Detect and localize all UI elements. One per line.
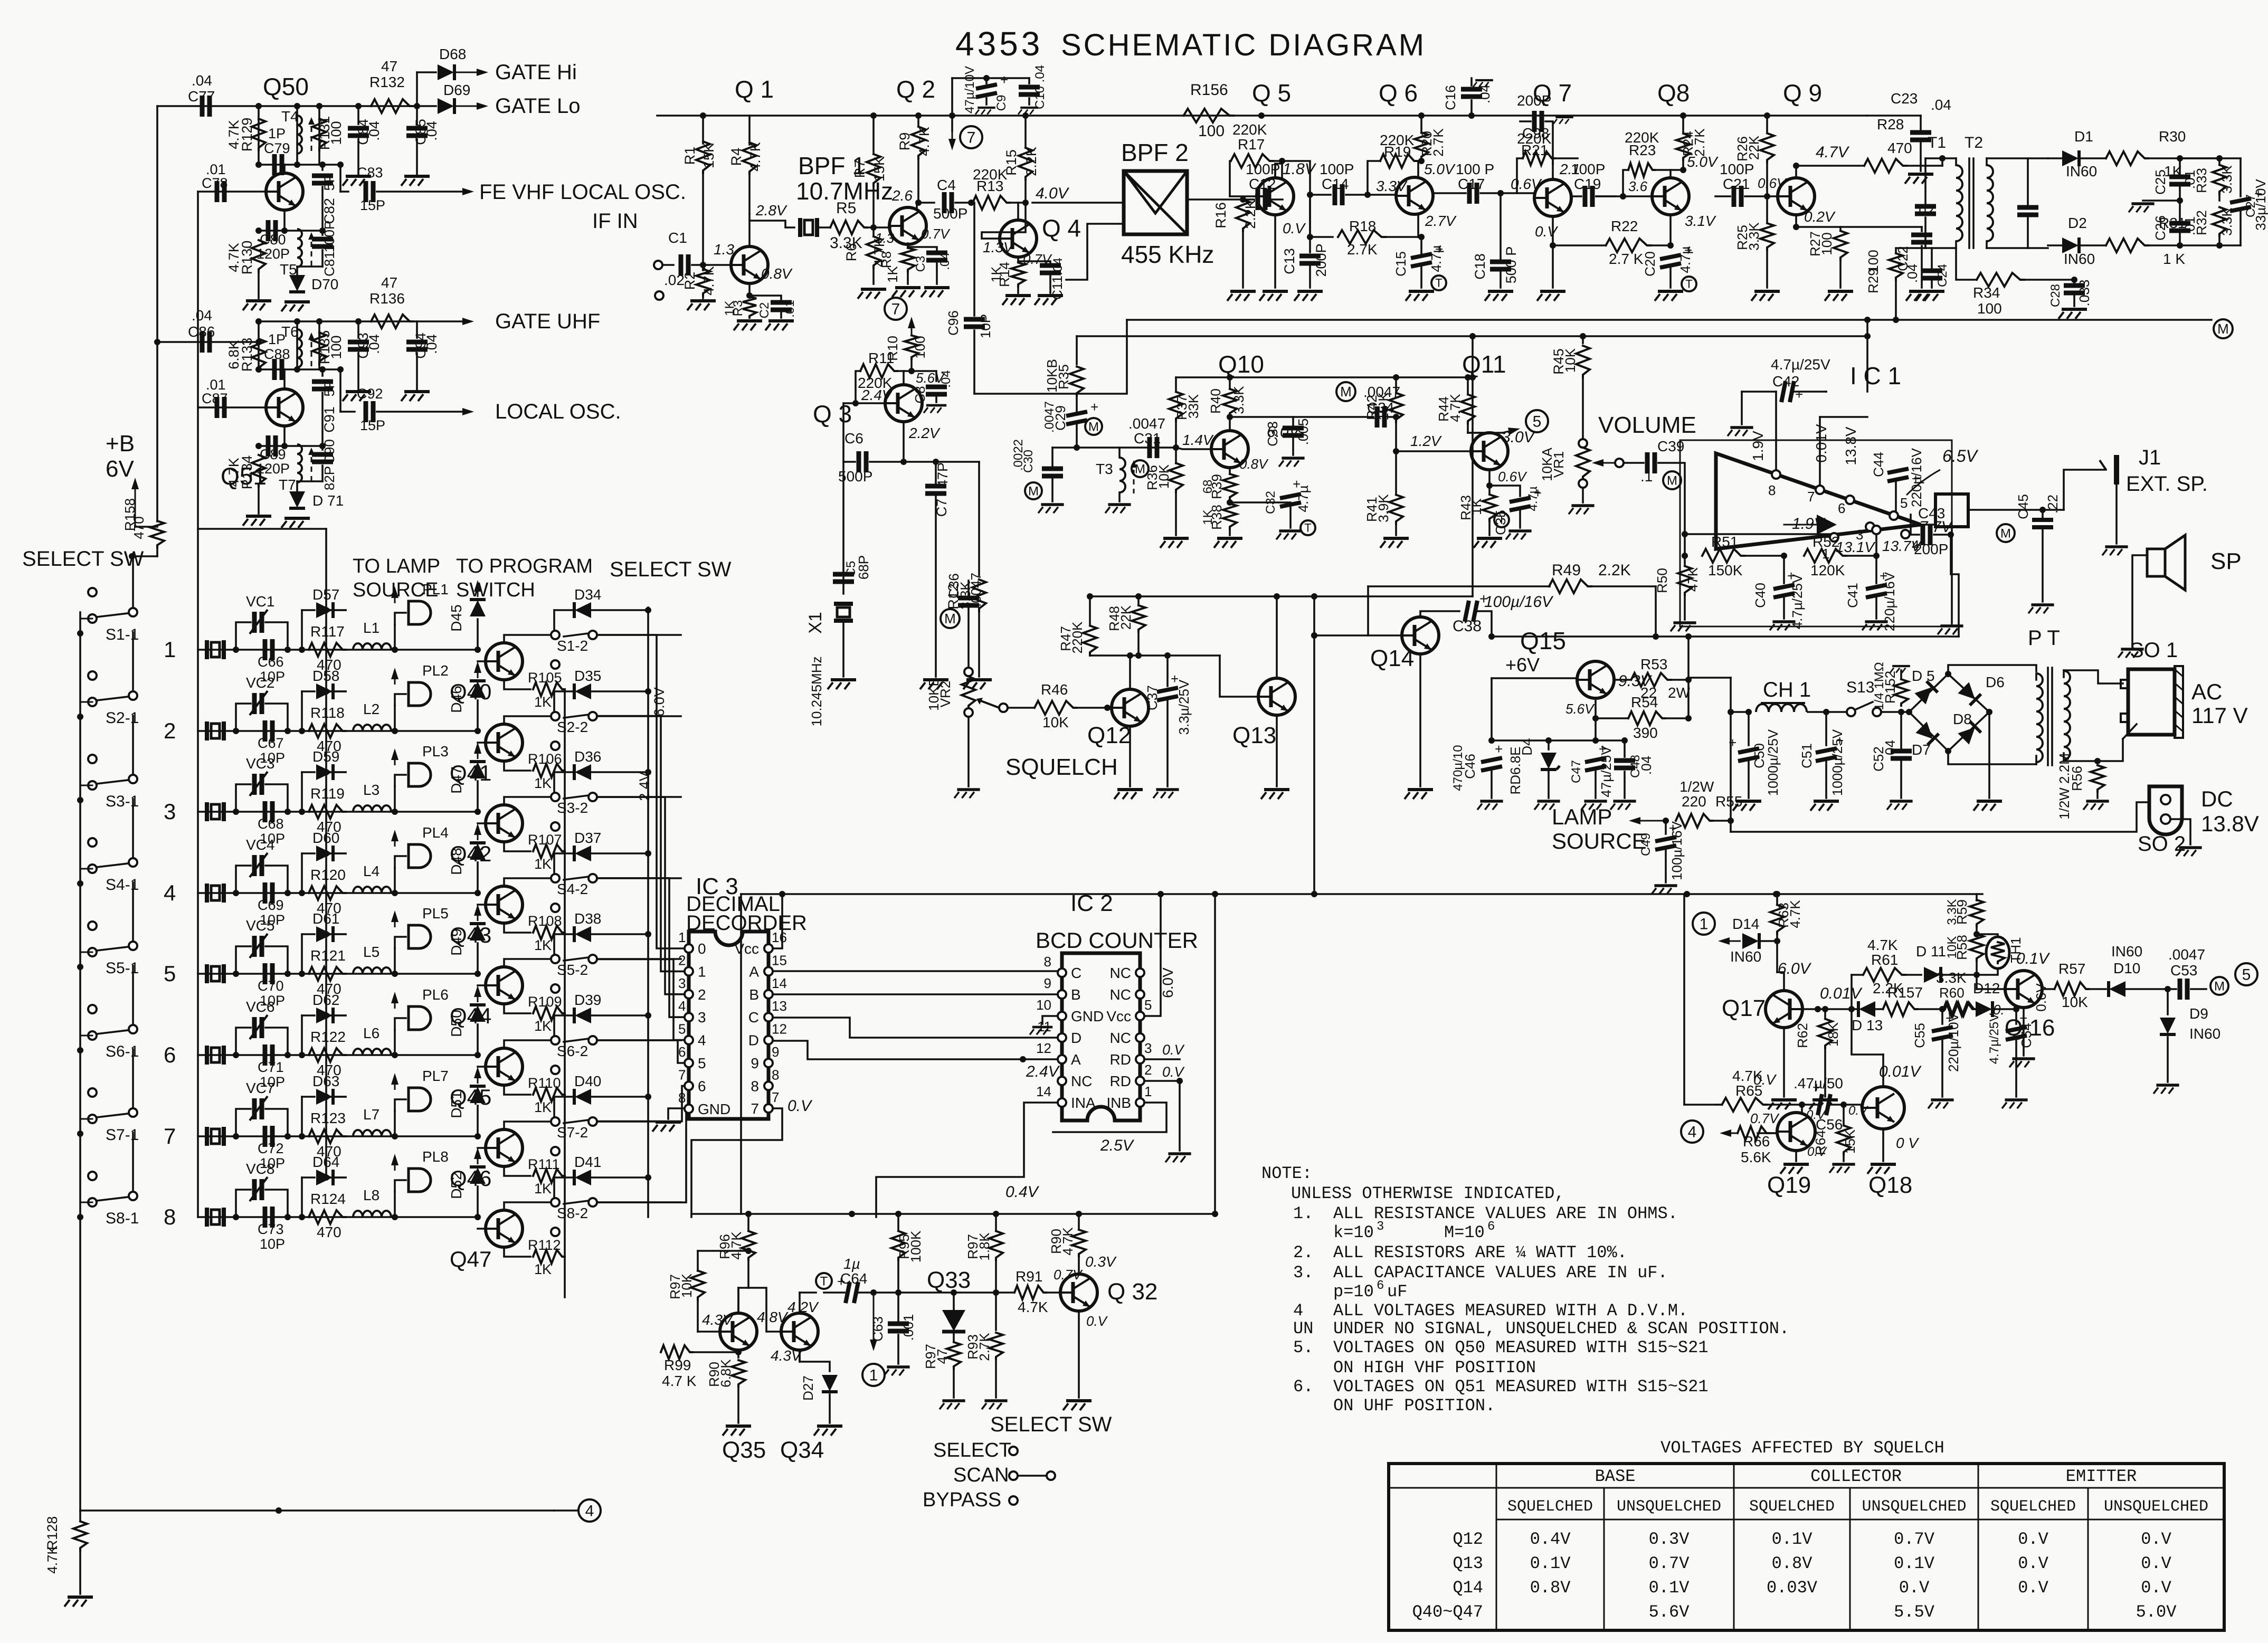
svg-text:C45: C45 xyxy=(2015,494,2031,519)
svg-text:0.2V: 0.2V xyxy=(1804,208,1836,225)
svg-text:1K: 1K xyxy=(534,1261,552,1277)
svg-text:100P: 100P xyxy=(1720,161,1754,177)
transistor Q14 xyxy=(1402,617,1439,654)
svg-text:LAMP: LAMP xyxy=(1552,804,1612,829)
svg-text:RD6.8E: RD6.8E xyxy=(1507,746,1523,794)
svg-text:IN60: IN60 xyxy=(2064,251,2095,267)
diode D70 xyxy=(296,267,298,276)
svg-text:4.7K: 4.7K xyxy=(1018,1299,1048,1315)
resistor R124 xyxy=(309,1210,346,1224)
svg-text:47P: 47P xyxy=(935,462,951,488)
svg-text:0.3V: 0.3V xyxy=(1649,1530,1690,1549)
inductor T3 xyxy=(1119,458,1125,492)
svg-text:120K: 120K xyxy=(1810,562,1845,578)
svg-text:S8-1: S8-1 xyxy=(106,1210,139,1227)
channel 5 row wire xyxy=(198,973,478,975)
svg-text:3.6: 3.6 xyxy=(1628,178,1648,194)
resistor R38 1K xyxy=(1227,499,1233,506)
capacitor C56 xyxy=(1812,1079,1830,1115)
svg-text:R156: R156 xyxy=(1190,81,1228,99)
svg-text:1: 1 xyxy=(164,637,176,662)
svg-text:Q13: Q13 xyxy=(1232,723,1276,748)
transistor Q17 xyxy=(1766,991,1802,1028)
gate uhf arrow xyxy=(417,320,464,322)
IC3 pin 6 5 xyxy=(685,1059,693,1067)
resistor R41 3.9K xyxy=(1395,451,1397,493)
wire to Q7 xyxy=(1501,192,1534,194)
diode D11 xyxy=(1924,967,1941,983)
resistor R56 xyxy=(2091,765,2104,792)
svg-text:T7: T7 xyxy=(279,477,296,493)
svg-text:R32: R32 xyxy=(2194,210,2209,235)
svg-text:2: 2 xyxy=(1144,1062,1152,1078)
resistor R29 100 xyxy=(1896,248,1925,252)
svg-text:S13: S13 xyxy=(1846,679,1874,696)
svg-text:C32: C32 xyxy=(1264,491,1278,514)
svg-text:7: 7 xyxy=(891,301,900,318)
svg-text:D9: D9 xyxy=(2189,1005,2208,1022)
resistor R3 xyxy=(748,283,751,296)
svg-text:8: 8 xyxy=(751,1078,759,1094)
svg-text:C10 .04: C10 .04 xyxy=(1033,65,1047,109)
svg-text:.001: .001 xyxy=(900,1314,916,1341)
transistor Q2 xyxy=(889,207,926,244)
crystal channel 2 xyxy=(207,721,224,740)
capacitor C14 xyxy=(1310,194,1331,196)
diode D40 xyxy=(554,1096,573,1098)
svg-text:10K: 10K xyxy=(1562,348,1578,373)
capacitor C77 xyxy=(202,96,210,117)
svg-text:SQUELCHED: SQUELCHED xyxy=(1990,1498,2076,1516)
wire R53 node xyxy=(1687,678,1690,718)
capacitor C40 xyxy=(1783,556,1785,583)
transistor Q40 xyxy=(486,643,523,680)
svg-text:2.7K: 2.7K xyxy=(976,1333,992,1361)
svg-text:0.V: 0.V xyxy=(1535,223,1558,240)
diode D69 xyxy=(438,98,454,114)
svg-text:D6: D6 xyxy=(1986,674,2005,690)
transistor Q7 xyxy=(1534,179,1571,216)
svg-text:C91: C91 xyxy=(321,406,337,433)
svg-text:D49: D49 xyxy=(448,928,464,955)
wire INA 0.4V xyxy=(876,1103,1058,1217)
svg-text:Q40~Q47: Q40~Q47 xyxy=(1412,1602,1483,1622)
svg-text:1: 1 xyxy=(1144,1084,1152,1099)
svg-text:1.4V: 1.4V xyxy=(1182,432,1214,448)
zener D4 xyxy=(1548,740,1550,749)
svg-text:5P: 5P xyxy=(321,379,337,396)
svg-text:47K: 47K xyxy=(1685,567,1701,592)
transistor Q8 xyxy=(1652,178,1689,215)
wire Q4 base xyxy=(982,203,1026,239)
svg-text:A: A xyxy=(1071,1051,1081,1068)
diode D8 xyxy=(1958,721,1981,745)
capacitor C82 5P xyxy=(321,165,324,170)
svg-text:4.7K: 4.7K xyxy=(1447,394,1463,422)
Q12 emitter xyxy=(1129,726,1131,786)
svg-text:+: + xyxy=(1090,399,1098,415)
capacitor C8 xyxy=(912,371,936,381)
resistor R33 xyxy=(2218,158,2220,164)
svg-text:220: 220 xyxy=(1682,793,1706,810)
svg-text:S3-1: S3-1 xyxy=(106,793,139,810)
IC2 pin 10 GND xyxy=(1058,1012,1066,1020)
svg-text:0.7V: 0.7V xyxy=(1649,1554,1690,1573)
svg-text:VC2: VC2 xyxy=(246,675,274,691)
svg-text:1K: 1K xyxy=(885,265,900,282)
svg-text:R16: R16 xyxy=(1213,202,1229,229)
svg-text:R91: R91 xyxy=(1016,1268,1042,1285)
svg-text:1K: 1K xyxy=(534,1018,552,1034)
wire SO2 to rail xyxy=(1731,802,2149,832)
svg-text:C18: C18 xyxy=(1472,253,1488,280)
svg-text:1µ: 1µ xyxy=(843,1256,860,1272)
resistor R121 xyxy=(309,967,346,981)
svg-text:R119: R119 xyxy=(310,785,345,802)
wire Q8 collector xyxy=(1669,170,1672,178)
svg-text:1 K: 1 K xyxy=(2163,251,2185,267)
svg-text:0.V: 0.V xyxy=(2141,1578,2171,1598)
svg-text:C98: C98 xyxy=(1522,125,1549,141)
T1 tank cap xyxy=(1924,158,1927,203)
svg-text:0.8V: 0.8V xyxy=(1530,1578,1571,1598)
wire RD pins xyxy=(1144,1058,1180,1060)
resistor R61 4.7K 2.2K xyxy=(1852,974,1862,976)
capacitor C10 xyxy=(1028,78,1030,83)
IC2 pin nc NC xyxy=(1136,990,1144,999)
svg-text:SELECT SW: SELECT SW xyxy=(990,1413,1112,1436)
resistor R17 220K xyxy=(1229,161,1231,196)
svg-text:R6: R6 xyxy=(843,243,859,262)
svg-text:SWITCH: SWITCH xyxy=(456,579,535,601)
capacitor C2 xyxy=(749,296,781,301)
svg-text:S6-1: S6-1 xyxy=(106,1043,139,1060)
svg-text:0.1V: 0.1V xyxy=(1649,1578,1690,1598)
R8 1K xyxy=(901,248,915,272)
svg-text:C4: C4 xyxy=(937,177,956,193)
svg-text:C82: C82 xyxy=(321,198,337,224)
resistor R123 xyxy=(309,1129,346,1143)
svg-text:C17: C17 xyxy=(1458,176,1485,192)
svg-text:S2-2: S2-2 xyxy=(557,719,588,735)
wire IC3-B to IC2-B xyxy=(773,993,1058,995)
wire left rail C78 xyxy=(197,192,199,1217)
capacitor C13 xyxy=(1309,195,1311,252)
svg-text:.04: .04 xyxy=(938,252,952,270)
inductor L1 xyxy=(353,643,391,650)
svg-text:0.4V: 0.4V xyxy=(1005,1183,1040,1201)
diode D37 xyxy=(554,852,573,854)
svg-text:455 KHz: 455 KHz xyxy=(1121,241,1214,268)
switch S13 xyxy=(1826,711,1847,713)
svg-text:C49: C49 xyxy=(1639,833,1653,856)
circled 5 xyxy=(1502,431,1509,433)
switch S6-2 xyxy=(551,1036,559,1044)
svg-text:47: 47 xyxy=(381,58,397,74)
svg-text:100µ/16V: 100µ/16V xyxy=(1669,821,1685,880)
svg-text:R1: R1 xyxy=(682,147,698,165)
ground xyxy=(401,176,430,186)
Q7 emitter xyxy=(1552,216,1554,245)
svg-text:1: 1 xyxy=(1700,916,1709,933)
svg-text:1.9V: 1.9V xyxy=(1750,431,1766,461)
svg-text:.22: .22 xyxy=(2045,495,2061,514)
capacitor C86 xyxy=(157,341,259,343)
svg-text:R30: R30 xyxy=(2159,128,2186,145)
svg-text:NC: NC xyxy=(1071,1073,1092,1089)
svg-text:PL1: PL1 xyxy=(422,581,449,597)
svg-text:Q18: Q18 xyxy=(1868,1172,1912,1198)
svg-text:6: 6 xyxy=(1487,1220,1495,1234)
svg-text:C38: C38 xyxy=(1453,618,1482,635)
wire Q47 collector xyxy=(504,1202,554,1210)
svg-text:VOLUME: VOLUME xyxy=(1598,412,1696,438)
svg-text:C: C xyxy=(1071,965,1081,981)
ground xyxy=(243,516,271,526)
wire Q34 collector T xyxy=(799,1293,801,1313)
channel 8 row wire xyxy=(198,1216,478,1218)
IC3 pin 7 6 xyxy=(685,1081,693,1090)
wire IC3-D to IC2-A xyxy=(773,1041,1023,1059)
diode D60 xyxy=(301,853,303,893)
svg-text:1K: 1K xyxy=(534,1181,552,1196)
PT primary bottom xyxy=(1948,751,2036,764)
svg-text:D 5: D 5 xyxy=(1912,668,1935,684)
capacitor C51 xyxy=(1825,712,1827,745)
svg-text:12: 12 xyxy=(1036,1040,1051,1056)
svg-text:C80: C80 xyxy=(260,232,286,248)
svg-text:EXT. SP.: EXT. SP. xyxy=(2126,472,2208,496)
svg-text:0.6V: 0.6V xyxy=(2033,983,2049,1012)
wire S6-2 out xyxy=(597,1039,681,1041)
wire BPF2 bottom xyxy=(1066,224,1124,280)
svg-text:7: 7 xyxy=(1807,489,1815,505)
diode D58 xyxy=(301,691,303,731)
svg-text:9: 9 xyxy=(751,1055,759,1071)
capacitor C45 xyxy=(2042,510,2044,517)
svg-text:C42: C42 xyxy=(1772,373,1799,390)
Q14 emitter xyxy=(1419,654,1421,786)
svg-text:D41: D41 xyxy=(574,1154,601,1170)
IC3 box xyxy=(689,932,768,1119)
svg-text:4.7K: 4.7K xyxy=(1867,937,1898,953)
capacitor C32 xyxy=(1230,501,1290,504)
capacitor C89 xyxy=(268,435,276,457)
svg-text:1K: 1K xyxy=(534,775,552,791)
svg-text:PL7: PL7 xyxy=(422,1068,449,1084)
resistor R96 4.7K xyxy=(747,1214,749,1230)
Q5 emitter gnd xyxy=(1274,215,1276,288)
channel 6 row wire xyxy=(198,1054,478,1056)
svg-text:0.V: 0.V xyxy=(1899,1578,1930,1598)
resistor R53 22 2W xyxy=(1631,673,1671,687)
svg-text:C14: C14 xyxy=(1322,176,1349,192)
wire to Q2 base xyxy=(867,226,890,229)
resistor R131 xyxy=(318,106,320,165)
svg-text:7: 7 xyxy=(751,1100,759,1117)
resistor R158 470 xyxy=(150,521,164,547)
wire gate-hi bus xyxy=(157,105,417,107)
resistor R62 18K xyxy=(1824,1009,1826,1018)
wire to Q8 base xyxy=(1596,195,1652,197)
svg-text:0.8V: 0.8V xyxy=(761,265,793,282)
svg-text:100µ/16V: 100µ/16V xyxy=(1484,593,1554,611)
svg-text:4.8V: 4.8V xyxy=(757,1309,789,1325)
svg-text:GATE Hi: GATE Hi xyxy=(495,61,577,84)
svg-text:13.1V: 13.1V xyxy=(1836,539,1875,555)
switch S3-1 xyxy=(88,755,97,763)
svg-text:D36: D36 xyxy=(574,748,601,765)
svg-text:2: 2 xyxy=(678,952,686,968)
wire vert q17 rail xyxy=(1683,894,1685,1105)
wire R53 to CH1 xyxy=(1688,677,1731,679)
svg-text:4.7K: 4.7K xyxy=(44,1545,60,1574)
svg-text:C31: C31 xyxy=(1134,430,1161,447)
svg-text:0.1V: 0.1V xyxy=(2016,950,2051,967)
resistor R35 10KB xyxy=(1076,336,1078,364)
svg-text:R17: R17 xyxy=(1238,136,1265,153)
svg-text:C6: C6 xyxy=(844,430,863,447)
main bus xyxy=(657,115,1867,117)
svg-text:10: 10 xyxy=(1036,997,1051,1013)
capacitor C83 xyxy=(366,181,373,202)
capacitor C73 xyxy=(265,1207,272,1228)
wire Q50 emitter row xyxy=(283,210,286,231)
resistor R97 47 xyxy=(953,1332,955,1341)
capacitor C42 xyxy=(1728,428,1753,436)
ground xyxy=(243,301,271,310)
crystal channel 6 xyxy=(207,1046,224,1065)
svg-text:D14: D14 xyxy=(1732,916,1759,932)
svg-text:R129: R129 xyxy=(239,118,255,152)
svg-text:T: T xyxy=(1304,521,1311,535)
resistor R43 1K xyxy=(1488,486,1491,493)
svg-text:1.2V: 1.2V xyxy=(1410,433,1442,449)
resistor R55 220 xyxy=(1676,814,1713,828)
IC3 pin 12 D xyxy=(764,1036,773,1044)
IC3 pin 8 8 xyxy=(764,1081,773,1090)
resistor R44 4.7K xyxy=(1467,377,1469,393)
wire S1-2 out xyxy=(597,634,681,636)
svg-text:C92: C92 xyxy=(357,386,383,402)
node select sw xyxy=(129,553,135,559)
svg-text:BYPASS: BYPASS xyxy=(923,1489,1001,1511)
trimmer VC4 xyxy=(236,866,251,893)
svg-text:0.01V: 0.01V xyxy=(1813,424,1829,462)
circled 4 xyxy=(578,1499,601,1522)
svg-text:6.0V: 6.0V xyxy=(1160,967,1176,998)
svg-text:220µ/16V: 220µ/16V xyxy=(1909,448,1924,507)
capacitor C28 xyxy=(2073,280,2075,284)
svg-text:9: 9 xyxy=(1044,975,1051,991)
lamp PL3 xyxy=(394,786,396,812)
resistor R91 4.7K xyxy=(996,1291,1013,1294)
diode D49 xyxy=(475,971,481,977)
svg-text:D70: D70 xyxy=(311,276,338,292)
transistor Q41 xyxy=(486,724,523,761)
svg-text:4.7K: 4.7K xyxy=(701,266,717,296)
vcc riser IC3 xyxy=(773,894,782,948)
capacitor C19 xyxy=(1585,186,1592,207)
Q17 emitter xyxy=(1783,1028,1785,1097)
capacitor C54 xyxy=(2015,1009,2017,1024)
svg-text:.005: .005 xyxy=(1295,419,1311,445)
right diode bus xyxy=(647,607,649,1217)
svg-text:6: 6 xyxy=(678,1044,686,1060)
svg-text:L2: L2 xyxy=(363,701,379,717)
wire to Q5 base xyxy=(1269,198,1283,201)
svg-text:4: 4 xyxy=(164,880,176,905)
svg-text:5: 5 xyxy=(2242,966,2251,984)
svg-text:68P: 68P xyxy=(856,555,871,580)
svg-text:8: 8 xyxy=(1768,482,1776,498)
resistor R109 1K xyxy=(504,1004,530,1013)
svg-text:22K: 22K xyxy=(1746,135,1762,160)
svg-text:0.V: 0.V xyxy=(1848,1104,1868,1118)
svg-text:5: 5 xyxy=(698,1055,706,1071)
svg-text:4.7K: 4.7K xyxy=(1787,900,1803,928)
wire bottom to circled4 xyxy=(80,1509,554,1512)
svg-text:M: M xyxy=(1135,462,1145,476)
svg-text:2 4V: 2 4V xyxy=(637,772,652,801)
resistor R117 xyxy=(309,643,346,657)
svg-text:C30: C30 xyxy=(1021,450,1036,473)
transistor Q18 xyxy=(1862,1087,1904,1129)
svg-text:+: + xyxy=(1495,741,1503,757)
svg-text:15P: 15P xyxy=(360,197,385,213)
svg-text:2.2K: 2.2K xyxy=(1598,562,1631,579)
IC2 box xyxy=(1062,953,1140,1120)
svg-text:R8: R8 xyxy=(879,251,894,268)
svg-text:R49: R49 xyxy=(1552,562,1581,579)
svg-text:D2: D2 xyxy=(2068,215,2087,231)
resistor R107 1K xyxy=(504,842,530,851)
svg-text:C90: C90 xyxy=(321,439,337,464)
svg-text:+: + xyxy=(1000,72,1008,88)
pin1 riser xyxy=(1830,533,1838,542)
resistor R50 47K xyxy=(1678,566,1692,595)
svg-text:M: M xyxy=(2214,979,2225,993)
table header row line xyxy=(1389,1487,2224,1489)
svg-text:R107: R107 xyxy=(528,832,562,848)
diode D6 xyxy=(1958,682,1981,705)
capacitor C79 xyxy=(274,154,282,175)
lamp PL1 xyxy=(394,624,396,650)
svg-text:C63: C63 xyxy=(870,1316,886,1342)
svg-text:5: 5 xyxy=(164,961,176,986)
svg-text:J1: J1 xyxy=(2139,446,2161,469)
diode D36 xyxy=(554,771,573,773)
wire Q4 out to BPF2 xyxy=(1032,202,1124,204)
svg-text:C44: C44 xyxy=(1871,452,1886,477)
svg-text:GATE UHF: GATE UHF xyxy=(495,310,600,333)
resistor R52 120K xyxy=(1804,549,1846,563)
capacitor C96 xyxy=(973,203,975,316)
IC3 pin 5 4 xyxy=(685,1036,693,1044)
transistor Q19 xyxy=(1777,1113,1815,1151)
svg-text:R19: R19 xyxy=(1384,144,1411,160)
wire Q51 emitter row xyxy=(283,426,286,446)
svg-text:.1: .1 xyxy=(1640,468,1653,485)
Q4 emitter R14 xyxy=(1017,257,1019,262)
svg-text:D60: D60 xyxy=(312,830,339,846)
svg-text:PL4: PL4 xyxy=(422,824,449,841)
svg-text:2.2V: 2.2V xyxy=(908,425,941,441)
svg-text:390: 390 xyxy=(1633,725,1658,741)
lamp PL7 xyxy=(394,1111,396,1136)
svg-text:2: 2 xyxy=(164,718,176,743)
IC2 gnd pin10 xyxy=(1042,1016,1058,1024)
